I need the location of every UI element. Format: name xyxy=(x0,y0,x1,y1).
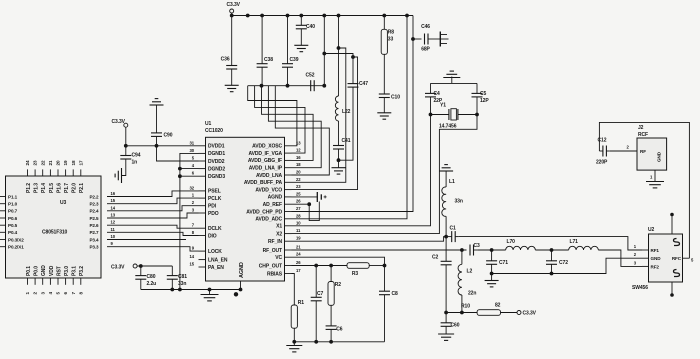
svg-text:RF_IN: RF_IN xyxy=(268,239,282,245)
U2 top stub xyxy=(671,216,673,234)
junction dot AD_REF xyxy=(307,202,311,206)
svg-text:AVDD_CHP_PD: AVDD_CHP_PD xyxy=(246,209,282,215)
ground below J2 xyxy=(646,181,664,183)
junction dot R1 bottom xyxy=(292,340,296,344)
svg-text:VDD: VDD xyxy=(49,265,55,276)
capacitor C46 xyxy=(424,34,426,45)
svg-text:220P: 220P xyxy=(596,160,608,166)
junction dot RF_IN/L1/C2 xyxy=(444,235,448,239)
svg-text:L22: L22 xyxy=(342,109,351,115)
inductor L2 xyxy=(461,250,463,264)
wire 3.3V to C80/C81 tops xyxy=(137,265,172,267)
svg-text:22: 22 xyxy=(40,160,45,165)
connector antenna jack xyxy=(439,32,441,47)
svg-text:P3.4: P3.4 xyxy=(89,237,99,242)
inductor L22 xyxy=(338,16,340,97)
wire bias row xyxy=(446,312,477,314)
svg-text:22n: 22n xyxy=(468,291,476,297)
svg-text:C39: C39 xyxy=(290,57,299,63)
wire staircase to AVDD_LNA_IP xyxy=(268,86,321,168)
svg-text:33n: 33n xyxy=(455,199,463,205)
svg-text:DVDD1: DVDD1 xyxy=(208,144,225,150)
svg-text:C41: C41 xyxy=(342,138,351,144)
svg-text:C81: C81 xyxy=(178,274,187,280)
wire VC net xyxy=(292,257,385,265)
wire RF_IN net xyxy=(292,237,447,242)
connector J2 RCF body xyxy=(637,138,667,170)
svg-text:CHP_OUT: CHP_OUT xyxy=(259,263,282,269)
svg-text:RST: RST xyxy=(56,266,62,276)
svg-text:26: 26 xyxy=(296,260,301,265)
junction dot C72 bottom xyxy=(550,272,554,276)
svg-text:18: 18 xyxy=(71,160,76,165)
svg-text:AVDD_LNA: AVDD_LNA xyxy=(256,173,283,179)
capacitor C80 xyxy=(140,266,142,276)
wire R10 to 3.3V xyxy=(501,312,518,314)
U1 left pin stubs xyxy=(199,145,206,147)
svg-text:P0.7: P0.7 xyxy=(8,209,18,214)
svg-text:LOCK: LOCK xyxy=(208,249,222,255)
svg-text:PCLK: PCLK xyxy=(208,196,222,202)
svg-text:C46: C46 xyxy=(421,24,430,30)
junction dots crystal nodes xyxy=(429,113,433,117)
svg-text:10: 10 xyxy=(111,234,116,239)
junction dot C80 top xyxy=(139,264,143,268)
capacitor C41 xyxy=(338,121,340,146)
capacitor C5 xyxy=(476,83,478,93)
U3 top pin stubs xyxy=(27,169,29,176)
wire AVDD_VCO riser xyxy=(292,57,358,190)
svg-text:RF2: RF2 xyxy=(651,264,660,269)
svg-text:DGND2: DGND2 xyxy=(208,166,225,172)
svg-text:L71: L71 xyxy=(570,239,579,245)
svg-text:RBIAS: RBIAS xyxy=(267,271,283,277)
svg-text:P3.3: P3.3 xyxy=(89,245,99,250)
ground below C80/C81 line xyxy=(209,290,211,295)
svg-text:U3: U3 xyxy=(60,200,67,206)
svg-text:P1.6: P1.6 xyxy=(56,183,62,193)
svg-text:14.7456: 14.7456 xyxy=(439,124,457,130)
svg-text:PSEL: PSEL xyxy=(208,189,221,195)
capacitor C60 xyxy=(445,313,447,323)
wire staircase to AVDD_GBG_IF xyxy=(262,86,314,161)
ground left of C94 xyxy=(121,168,123,183)
junction dot C47 link xyxy=(322,52,326,56)
svg-text:26: 26 xyxy=(296,199,301,204)
junction dots filter ground line xyxy=(314,340,318,344)
svg-text:P2.5: P2.5 xyxy=(89,216,99,221)
svg-text:25: 25 xyxy=(296,191,301,196)
U2 switch arm glyphs xyxy=(674,239,680,246)
svg-text:Y1: Y1 xyxy=(440,103,446,109)
wire filter ground to switch GND xyxy=(492,258,642,273)
svg-text:C12: C12 xyxy=(598,138,607,144)
svg-text:SW456: SW456 xyxy=(632,285,648,291)
wire bus P3.3-LOCK xyxy=(107,247,199,251)
U1 right pin stubs xyxy=(285,145,292,147)
svg-text:DCLK: DCLK xyxy=(208,226,222,232)
wire RFC to C12 loop xyxy=(599,122,689,258)
svg-text:R10: R10 xyxy=(461,304,470,310)
ground below C10 xyxy=(377,112,391,114)
svg-text:GND: GND xyxy=(651,256,662,261)
svg-text:VC: VC xyxy=(275,255,282,261)
svg-text:P3.1: P3.1 xyxy=(72,266,78,276)
resistor R8 xyxy=(383,16,385,30)
svg-text:L2: L2 xyxy=(467,269,473,275)
wire DVDD2 riser xyxy=(157,146,199,161)
svg-text:12: 12 xyxy=(111,220,116,225)
junction dot C71 bottom xyxy=(490,272,494,276)
svg-text:RF: RF xyxy=(640,149,646,154)
svg-text:C80: C80 xyxy=(147,274,156,280)
wire staircase to AVDD_IF_VGA xyxy=(255,86,305,153)
svg-text:24: 24 xyxy=(296,252,301,257)
svg-text:23: 23 xyxy=(33,160,38,165)
svg-text:15: 15 xyxy=(111,198,116,203)
IC U1 CC1020 transceiver body xyxy=(206,137,285,281)
wire bus P2.3-PCLK xyxy=(107,198,199,204)
resistor R2 xyxy=(330,266,332,282)
inductor L1 xyxy=(445,171,447,187)
capacitor C71 xyxy=(491,250,493,261)
ground above C90 xyxy=(150,104,164,106)
wire AVDD_BUFF_PA riser xyxy=(292,48,346,182)
ground below C36 xyxy=(225,84,239,86)
svg-text:P1.7: P1.7 xyxy=(64,183,70,193)
svg-text:AGND: AGND xyxy=(268,195,283,201)
svg-text:13: 13 xyxy=(111,213,116,218)
svg-text:20: 20 xyxy=(296,170,301,175)
wire L70 to L71 xyxy=(535,249,568,251)
svg-text:P3.0: P3.0 xyxy=(64,266,70,276)
wire bus P2.4-PDI xyxy=(107,206,199,211)
junction dots C52 row xyxy=(260,84,264,88)
svg-text:P0.1: P0.1 xyxy=(26,266,32,276)
junction dots bias row xyxy=(444,311,448,315)
capacitor C72 xyxy=(551,250,553,261)
svg-text:P0.4: P0.4 xyxy=(8,230,18,235)
svg-text:C90: C90 xyxy=(164,133,173,139)
svg-text:1n: 1n xyxy=(132,160,138,166)
J2 ground pin xyxy=(654,170,656,181)
svg-text:C7: C7 xyxy=(317,291,324,297)
svg-text:C38: C38 xyxy=(264,57,273,63)
U3 left pin stubs xyxy=(0,196,6,198)
junction dot AVDD_VCO riser xyxy=(351,55,355,59)
svg-text:P2.1: P2.1 xyxy=(79,183,85,193)
junction dot AVDD_ADC riser xyxy=(405,14,409,18)
junction dots DGND chain xyxy=(178,167,182,171)
svg-text:17: 17 xyxy=(296,268,301,273)
wire AGND row with polarized capacitor xyxy=(292,196,318,198)
wire RF_OUT net xyxy=(292,249,467,251)
svg-text:P0.0: P0.0 xyxy=(34,266,40,276)
wire X2 net xyxy=(292,115,478,234)
svg-text:L1: L1 xyxy=(449,179,455,185)
resistor R10 xyxy=(477,310,500,316)
capacitor C4 xyxy=(425,92,436,94)
wire top 3.3V rail xyxy=(232,13,413,16)
svg-text:C52: C52 xyxy=(306,73,315,79)
svg-text:C47: C47 xyxy=(359,81,368,87)
wire C46 tap xyxy=(413,38,422,40)
capacitor C81 xyxy=(171,266,173,276)
svg-text:18: 18 xyxy=(296,162,301,167)
svg-text:14: 14 xyxy=(111,205,116,210)
svg-text:C5: C5 xyxy=(480,91,487,97)
junction dot C41 bottom xyxy=(337,158,341,162)
wire CHP_OUT net xyxy=(292,265,348,267)
wire C3.3V to DVDD1 rail xyxy=(126,127,199,146)
svg-text:DGND1: DGND1 xyxy=(208,151,225,157)
wire rail drop to C52 row xyxy=(323,16,325,86)
wire loop filter ground line xyxy=(294,341,384,343)
capacitor C8 xyxy=(384,266,386,292)
svg-text:P1.1: P1.1 xyxy=(8,194,18,199)
wire staircase to AVDD_LNA xyxy=(275,86,329,175)
svg-text:P3.2: P3.2 xyxy=(79,266,85,276)
U3 bottom pin stubs xyxy=(27,278,29,285)
ground below C40 xyxy=(294,44,308,46)
svg-text:30: 30 xyxy=(190,148,195,153)
svg-text:21: 21 xyxy=(296,245,301,250)
svg-text:AVDD_XOSC: AVDD_XOSC xyxy=(252,144,282,150)
wire C52 row xyxy=(248,85,325,87)
svg-text:15: 15 xyxy=(190,262,195,267)
svg-text:32: 32 xyxy=(190,185,195,190)
svg-text:C60: C60 xyxy=(451,323,460,329)
capacitor C10 xyxy=(383,54,385,94)
svg-text:GND: GND xyxy=(41,265,47,276)
svg-text:16: 16 xyxy=(296,155,301,160)
junction dot C46 tap xyxy=(411,37,415,41)
svg-text:U2: U2 xyxy=(648,227,655,233)
wire analog ground line xyxy=(141,289,241,291)
U1 AGND bottom pin wire xyxy=(240,281,242,290)
wire crystal top rail xyxy=(431,82,478,84)
capacitor C3 xyxy=(469,245,471,256)
microcontroller U3 C8051F310 body xyxy=(6,176,102,278)
wire L71 to switch RF2 xyxy=(598,250,642,266)
junction dots CHP_OUT row xyxy=(314,264,318,268)
capacitor C39 xyxy=(287,16,289,64)
svg-text:2.2u: 2.2u xyxy=(147,281,157,287)
capacitor C40 xyxy=(300,16,302,26)
ground above L1 xyxy=(439,170,453,172)
capacitor C38 xyxy=(261,16,263,64)
svg-text:C10: C10 xyxy=(391,95,400,101)
capacitor C6 xyxy=(330,305,332,326)
svg-text:R8: R8 xyxy=(388,30,395,36)
svg-text:X2: X2 xyxy=(276,231,282,237)
wire bus P2.5-PDO xyxy=(107,213,199,218)
junction blob below U1 xyxy=(234,292,238,296)
svg-text:P2.4: P2.4 xyxy=(89,209,99,214)
wire C1 to switch RF1 xyxy=(459,237,642,250)
svg-text:C3.3V: C3.3V xyxy=(112,119,126,125)
svg-text:31: 31 xyxy=(190,140,195,145)
svg-text:R1: R1 xyxy=(298,300,305,306)
svg-text:33n: 33n xyxy=(178,281,186,287)
svg-text:82: 82 xyxy=(495,303,501,309)
wire C47 top link xyxy=(324,54,353,84)
U2 bottom stub xyxy=(671,282,673,294)
wire AVDD_ADC riser xyxy=(292,16,408,219)
svg-text:23: 23 xyxy=(296,184,301,189)
svg-text:AVDD_IF_VGA: AVDD_IF_VGA xyxy=(248,151,282,157)
svg-text:AD_REF: AD_REF xyxy=(263,202,282,208)
svg-text:P1.5: P1.5 xyxy=(49,183,55,193)
U2 pin stubs xyxy=(642,249,649,251)
svg-text:P0.5: P0.5 xyxy=(8,223,18,228)
junction dot C71 node xyxy=(490,248,494,252)
wire P3.4 stub xyxy=(107,239,186,241)
wire C47 bottom link xyxy=(339,87,354,160)
capacitor C7 xyxy=(315,266,317,298)
svg-text:RCF: RCF xyxy=(638,132,648,138)
wire R3 to C8 node xyxy=(369,265,384,267)
svg-text:R3: R3 xyxy=(352,271,359,277)
svg-text:C2: C2 xyxy=(432,255,439,261)
capacitor C94 xyxy=(125,146,127,156)
svg-text:C72: C72 xyxy=(559,260,568,266)
svg-text:DGND3: DGND3 xyxy=(208,174,225,180)
resistor R3 xyxy=(347,263,369,269)
svg-text:AVDD_BUFF_PA: AVDD_BUFF_PA xyxy=(244,180,283,186)
resistor R1 xyxy=(291,305,297,328)
svg-text:R2: R2 xyxy=(335,282,342,288)
wire C94 to side ground xyxy=(122,159,126,176)
capacitor C47 xyxy=(348,83,359,85)
svg-text:P2.0: P2.0 xyxy=(72,183,78,193)
svg-text:P2.6: P2.6 xyxy=(89,223,99,228)
junction dot AVDD_BUFF_PA riser xyxy=(337,46,341,50)
svg-text:C3.3V: C3.3V xyxy=(523,311,537,317)
svg-text:P0.2/X1: P0.2/X1 xyxy=(8,245,24,250)
svg-text:RF1: RF1 xyxy=(651,248,660,253)
svg-text:C94: C94 xyxy=(132,153,141,159)
crystal Y1 xyxy=(431,114,449,116)
wire C4 to crystal top rail xyxy=(430,83,432,93)
inductor L70 xyxy=(506,246,536,250)
svg-text:LNA_EN: LNA_EN xyxy=(208,257,228,263)
capacitor C12 xyxy=(599,150,603,152)
wire bus P2.7-DIO xyxy=(107,232,199,235)
svg-text:12: 12 xyxy=(296,148,301,153)
svg-text:RFC: RFC xyxy=(672,256,682,261)
wire AD_REF row xyxy=(292,203,310,205)
svg-text:U1: U1 xyxy=(205,121,212,127)
svg-text:AVDD_LNA_IP: AVDD_LNA_IP xyxy=(249,166,283,172)
svg-text:J2: J2 xyxy=(638,125,644,131)
svg-text:P0.3/X2: P0.3/X2 xyxy=(8,237,24,242)
inductor L71 xyxy=(569,246,599,250)
svg-text:P1.0: P1.0 xyxy=(8,202,18,207)
svg-text:33: 33 xyxy=(388,37,394,43)
svg-text:C3.3V: C3.3V xyxy=(111,264,125,270)
wire C12 to J2 xyxy=(610,150,637,152)
svg-text:AVDD_VCO: AVDD_VCO xyxy=(255,187,282,193)
svg-text:RF_OUT: RF_OUT xyxy=(263,248,282,254)
ground below C41 xyxy=(338,161,340,168)
svg-text:22: 22 xyxy=(296,177,301,182)
svg-text:C40: C40 xyxy=(306,24,315,30)
wire AD_REF jog loop xyxy=(309,202,319,221)
svg-text:19: 19 xyxy=(296,236,301,241)
svg-text:24: 24 xyxy=(25,160,30,165)
wire bus P2.6-DCLK xyxy=(107,225,199,228)
capacitor C2 xyxy=(445,237,447,262)
svg-text:P1.2: P1.2 xyxy=(26,183,32,193)
junction dot L2 top xyxy=(460,248,464,252)
wire X1 net xyxy=(292,98,431,225)
svg-text:C3: C3 xyxy=(474,243,481,249)
ground below R1 xyxy=(293,342,295,346)
svg-text:C8051F310: C8051F310 xyxy=(42,230,68,236)
svg-text:14: 14 xyxy=(190,254,195,259)
junction dots on top rail xyxy=(230,14,234,18)
svg-text:CC1020: CC1020 xyxy=(205,128,223,134)
svg-text:P1.4: P1.4 xyxy=(41,183,47,193)
wire C3 to filter xyxy=(478,249,506,251)
svg-text:16: 16 xyxy=(111,191,116,196)
svg-text:L70: L70 xyxy=(507,239,516,245)
capacitor C52 xyxy=(310,80,312,91)
svg-text:DIO: DIO xyxy=(208,233,217,239)
svg-text:C6: C6 xyxy=(336,327,343,333)
wire DGND chain xyxy=(180,153,199,289)
svg-text:AVDD_ADC: AVDD_ADC xyxy=(255,217,282,223)
svg-text:28: 28 xyxy=(296,213,301,218)
svg-text:20: 20 xyxy=(56,160,61,165)
junction dots ground line xyxy=(170,288,174,292)
svg-text:AVDD_GBG_IF: AVDD_GBG_IF xyxy=(248,158,282,164)
svg-text:C4: C4 xyxy=(434,91,441,97)
svg-text:12P: 12P xyxy=(480,98,489,104)
svg-text:C36: C36 xyxy=(221,57,230,63)
ground below C60 xyxy=(438,333,454,335)
svg-text:27: 27 xyxy=(296,206,301,211)
capacitor C90 xyxy=(156,105,158,133)
svg-text:21: 21 xyxy=(48,160,53,165)
junction dots on DVDD rail xyxy=(124,144,128,148)
svg-text:C71: C71 xyxy=(499,260,508,266)
svg-text:PDO: PDO xyxy=(208,211,219,217)
svg-text:10: 10 xyxy=(296,220,301,225)
svg-text:P2.7: P2.7 xyxy=(89,230,99,235)
junction dot C72 node xyxy=(550,248,554,252)
wire bus P2.2-PSEL xyxy=(107,191,199,197)
rf-switch U2 SW456 body xyxy=(649,234,683,282)
svg-text:68P: 68P xyxy=(421,47,430,53)
svg-text:PDI: PDI xyxy=(208,204,217,210)
svg-text:C8: C8 xyxy=(392,291,399,297)
ground below C71 xyxy=(491,274,493,281)
svg-text:DVDD2: DVDD2 xyxy=(208,159,225,165)
svg-text:PA_EN: PA_EN xyxy=(208,265,224,271)
ground above crystal xyxy=(443,77,460,79)
svg-text:C3.3V: C3.3V xyxy=(227,2,241,8)
svg-text:P1.3: P1.3 xyxy=(34,183,40,193)
svg-text:19: 19 xyxy=(63,160,68,165)
svg-text:X1: X1 xyxy=(276,224,282,230)
svg-text:C1: C1 xyxy=(450,226,457,232)
wire staircase to AVDD_XOSC xyxy=(248,86,297,146)
svg-text:GND: GND xyxy=(657,151,662,162)
wire AVDD_CHP_PD riser (rail end) xyxy=(292,16,414,212)
svg-text:AGND: AGND xyxy=(239,262,245,278)
